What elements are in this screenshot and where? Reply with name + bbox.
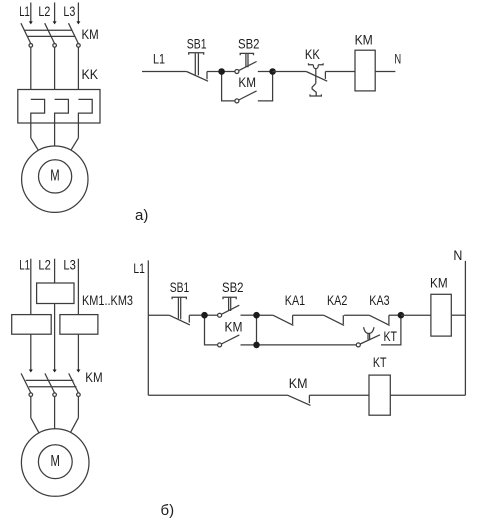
svg-text:KK: KK (82, 66, 99, 82)
svg-text:L1: L1 (153, 51, 165, 67)
svg-text:KK: KK (305, 46, 321, 62)
svg-text:L2: L2 (38, 3, 50, 19)
svg-text:KA3: KA3 (369, 292, 389, 308)
svg-text:SB2: SB2 (222, 279, 244, 295)
svg-text:а): а) (135, 207, 148, 224)
svg-text:KM: KM (238, 74, 256, 90)
svg-text:KM1..KM3: KM1..KM3 (82, 292, 133, 308)
svg-text:N: N (453, 247, 462, 263)
svg-text:SB1: SB1 (187, 35, 207, 51)
svg-text:N: N (394, 51, 401, 67)
svg-text:M: M (51, 453, 60, 470)
svg-text:KM: KM (355, 31, 373, 47)
svg-text:L3: L3 (63, 257, 76, 273)
svg-text:L1: L1 (19, 257, 30, 273)
svg-text:SB1: SB1 (170, 279, 190, 295)
svg-text:KM: KM (289, 375, 308, 391)
svg-text:KA1: KA1 (285, 292, 305, 308)
svg-text:L3: L3 (63, 3, 75, 19)
svg-text:KM: KM (430, 275, 448, 291)
svg-text:SB2: SB2 (238, 35, 260, 51)
svg-text:б): б) (161, 502, 175, 519)
svg-text:KM: KM (225, 319, 243, 335)
svg-text:KT: KT (384, 328, 398, 344)
svg-text:L1: L1 (19, 3, 30, 19)
svg-text:L1: L1 (133, 260, 145, 276)
svg-text:KA2: KA2 (327, 292, 347, 308)
svg-text:KM: KM (85, 369, 102, 385)
svg-text:M: M (50, 167, 59, 184)
svg-text:KM: KM (82, 26, 99, 42)
svg-text:L2: L2 (38, 257, 51, 273)
svg-text:KT: KT (373, 354, 387, 370)
